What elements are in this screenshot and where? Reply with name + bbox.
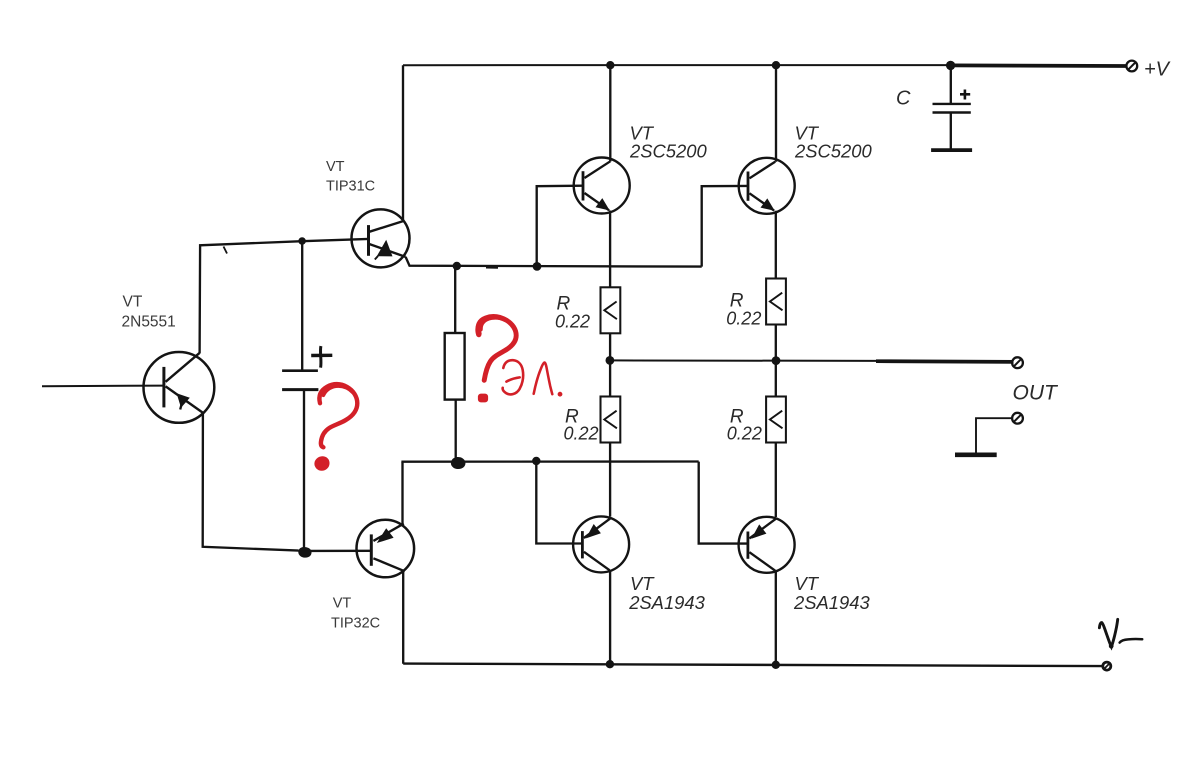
node blob middle resistor bottom: [451, 457, 466, 469]
transistor Q5 VT 2SA1943: [739, 517, 795, 573]
transistor U1 VT TIP31C: [352, 209, 410, 267]
svg-text:0.22: 0.22: [727, 424, 762, 444]
wire R3 to Q4: [609, 443, 611, 517]
wire to TIP32C base: [308, 550, 371, 552]
wire input: [42, 385, 164, 388]
node OUT right: [772, 356, 781, 365]
wire Q3 emitter: [775, 211, 777, 279]
wire R4 to Q5: [775, 443, 777, 518]
resistor R4 0.22: [766, 397, 786, 443]
svg-text:2SC5200: 2SC5200: [794, 141, 872, 162]
wire Q4 base: [536, 462, 583, 544]
wire OUT to R3: [609, 360, 611, 396]
wire Q5 collector down: [775, 571, 777, 665]
node rail-Q5: [772, 661, 780, 669]
wire TIP31C collector vertical: [402, 65, 404, 221]
svg-text:TIP31C: TIP31C: [326, 179, 375, 195]
transistor Q3 VT 2SC5200: [739, 158, 795, 214]
svg-text:0.22: 0.22: [726, 309, 761, 329]
tick mark on wire: [224, 247, 228, 254]
svg-text:2SA1943: 2SA1943: [793, 592, 870, 613]
red annotation letter л: [534, 363, 553, 395]
svg-text:TIP32C: TIP32C: [331, 616, 380, 632]
resistor R1 0.22: [601, 287, 621, 333]
wire Q4 collector down: [609, 570, 611, 664]
svg-text:C: C: [896, 88, 911, 110]
svg-text:VT: VT: [333, 595, 352, 611]
transistor U2 VT TIP32C: [357, 520, 415, 578]
node bus - middle resistor: [453, 262, 461, 270]
transistor Q4 VT 2SA1943: [573, 516, 629, 572]
resistor R3 0.22: [601, 397, 621, 443]
svg-text:VT: VT: [326, 159, 345, 175]
terminal V-: [1103, 662, 1111, 670]
wire OUT to R4: [775, 361, 777, 397]
wire Q3 collector: [775, 65, 777, 162]
wire OUT line thick: [876, 359, 1014, 363]
node rail-Q4: [606, 660, 614, 668]
wire OUT line thin: [610, 359, 876, 362]
wire top +V rail thin: [403, 64, 951, 66]
red annotation ?эл. question mark: [478, 317, 516, 381]
red annotation period: [558, 392, 563, 397]
node rail-Q2C: [606, 61, 614, 69]
node cap-emitter blob: [298, 547, 311, 558]
ground bar OUT: [955, 452, 997, 457]
wire 2N5551 emitter down to TIP32C base: [203, 413, 299, 551]
transistor Q1 VT 2N5551: [144, 352, 215, 423]
node OUT left: [606, 356, 615, 365]
node bus - Q2 base: [533, 262, 542, 271]
wire lower bus: [401, 460, 698, 463]
wire R1 to OUT: [609, 333, 611, 360]
capacitor C1: [931, 65, 972, 150]
svg-text:2N5551: 2N5551: [122, 313, 176, 330]
capacitor C2 electrolytic: [282, 241, 332, 551]
terminal +V: [1126, 61, 1137, 72]
wire R2 to OUT: [775, 325, 777, 361]
terminal OUT ground: [1012, 413, 1023, 424]
wire bottom rail: [403, 664, 1103, 667]
svg-text:2SA1943: 2SA1943: [628, 592, 705, 613]
wire TIP31C emitter bus: [406, 257, 702, 267]
node Q4 base branch: [532, 457, 540, 465]
node rail-capC: [946, 61, 955, 70]
wire TIP32C emitter up to bus: [401, 462, 403, 524]
svg-text:+V: +V: [1144, 59, 1171, 81]
node rail-Q3C: [772, 61, 780, 69]
red annotation letter э: [503, 360, 523, 394]
wire top +V rail thick: [951, 64, 1127, 68]
wire Q2 collector: [609, 65, 611, 161]
wire OUT ground: [976, 418, 1012, 452]
wire TIP32C collector down: [402, 571, 404, 664]
wire Q3 base: [702, 186, 748, 267]
resistor R2 0.22: [766, 279, 786, 325]
svg-text:OUT: OUT: [1013, 382, 1060, 405]
transistor Q2 VT 2SC5200: [574, 158, 630, 214]
red question mark 1 dot: [315, 457, 329, 470]
resistor R5 middle: [454, 266, 456, 333]
node TIP31C base junction: [298, 237, 306, 245]
red question mark 1: [319, 384, 357, 447]
wire Q2 emitter: [609, 211, 611, 288]
svg-text:VT: VT: [123, 294, 143, 311]
label V- handwritten: [1099, 619, 1142, 648]
wire 2N5551 collector to TIP31C base: [200, 239, 369, 354]
wire Q5 base: [699, 462, 748, 544]
svg-text:0.22: 0.22: [564, 424, 599, 444]
red annotation ?эл. dot: [478, 394, 488, 403]
svg-text:2SC5200: 2SC5200: [629, 141, 707, 162]
terminal OUT: [1012, 357, 1023, 368]
svg-text:0.22: 0.22: [555, 312, 590, 332]
wire Q2 base: [537, 186, 583, 267]
wire overdraw on emitter bus: [486, 266, 498, 269]
